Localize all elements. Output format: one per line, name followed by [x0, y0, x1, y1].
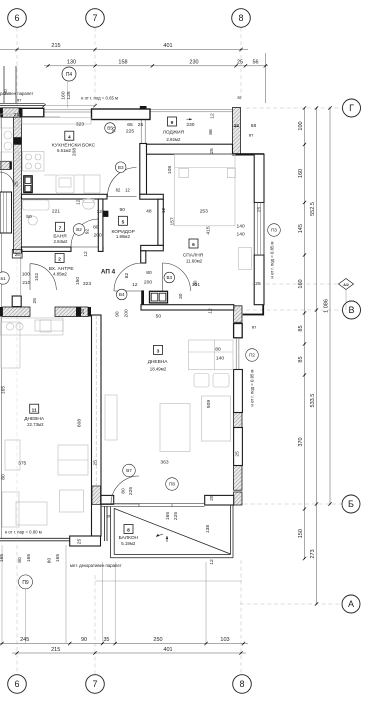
svg-text:92: 92 — [85, 229, 91, 235]
window P2 glazing lines — [236, 338, 239, 370]
bedroom east window frame boxes — [234, 324, 243, 338]
node A/2 diamond marker — [339, 279, 354, 290]
grid circle 7 top — [86, 9, 105, 28]
svg-text:157: 157 — [170, 217, 176, 225]
wall bedroom/living divider (white core) — [141, 305, 234, 310]
svg-text:22.73м2: 22.73м2 — [27, 422, 44, 427]
svg-text:вт: вт — [107, 514, 111, 519]
grid circle 7 bottom — [86, 675, 105, 694]
svg-text:130: 130 — [67, 60, 76, 66]
svg-text:25: 25 — [237, 60, 243, 66]
svg-text:90: 90 — [81, 637, 87, 643]
svg-text:8: 8 — [127, 528, 130, 534]
svg-text:80: 80 — [17, 557, 23, 563]
rotated interior dims — [0, 89, 262, 565]
divider band black caps — [0, 307, 3, 317]
svg-text:н от г. под = 0.85 м: н от г. под = 0.85 м — [250, 369, 255, 406]
svg-text:3: 3 — [157, 349, 160, 355]
svg-text:7: 7 — [59, 226, 62, 232]
svg-text:125: 125 — [66, 91, 72, 99]
svg-text:12: 12 — [209, 559, 215, 565]
svg-text:вт: вт — [252, 325, 256, 330]
svg-text:552.5: 552.5 — [310, 202, 316, 216]
tv cabinet living — [105, 395, 117, 440]
svg-text:вт: вт — [238, 95, 242, 100]
fridge kitchen — [84, 175, 100, 193]
svg-text:165: 165 — [165, 512, 171, 520]
wall bathroom east (white core) — [98, 199, 103, 251]
svg-text:85: 85 — [298, 356, 304, 362]
svg-text:12: 12 — [83, 251, 89, 257]
svg-text:5.19м2: 5.19м2 — [121, 541, 136, 546]
svg-text:8: 8 — [238, 13, 243, 23]
svg-text:323: 323 — [76, 122, 84, 128]
duct box living room — [150, 291, 168, 303]
svg-text:140: 140 — [237, 232, 245, 238]
svg-text:210: 210 — [22, 280, 30, 286]
svg-text:25: 25 — [255, 281, 261, 287]
dim ticks — [0, 48, 331, 655]
column hatch over west wall — [92, 486, 101, 505]
svg-text:30: 30 — [193, 280, 199, 286]
wall cap top band mid — [19, 108, 22, 118]
svg-text:230: 230 — [186, 122, 194, 128]
svg-text:158: 158 — [118, 60, 127, 66]
ottoman 1 — [194, 374, 209, 388]
top dim line row1 — [0, 49, 248, 51]
grid line V horizontal — [246, 309, 342, 311]
grid circle 8 bottom — [233, 675, 252, 694]
svg-text:273: 273 — [310, 549, 316, 558]
wall bedroom top (white core) — [147, 144, 233, 154]
svg-text:П9: П9 — [22, 580, 29, 586]
svg-text:12: 12 — [210, 113, 216, 119]
svg-text:2: 2 — [58, 257, 61, 263]
table living right — [202, 396, 231, 441]
svg-text:25: 25 — [234, 123, 240, 129]
svg-text:415: 415 — [206, 226, 212, 234]
svg-text:90: 90 — [119, 207, 125, 213]
svg-text:225: 225 — [128, 487, 134, 495]
svg-text:108: 108 — [167, 166, 173, 174]
svg-text:103: 103 — [220, 637, 229, 643]
svg-text:100: 100 — [22, 272, 30, 278]
svg-text:140: 140 — [216, 356, 224, 362]
svg-text:В2: В2 — [76, 227, 82, 232]
svg-text:215: 215 — [51, 43, 60, 49]
svg-text:П2: П2 — [249, 353, 255, 358]
chimney box on divider band — [12, 296, 21, 307]
svg-text:вт: вт — [249, 133, 253, 138]
svg-text:88: 88 — [208, 129, 214, 135]
svg-text:6: 6 — [14, 13, 19, 23]
right dim chain 2 — [316, 108, 318, 604]
svg-text:25: 25 — [256, 207, 262, 213]
grid circle A right — [342, 595, 360, 613]
svg-text:323: 323 — [83, 281, 91, 287]
dim labels right chains (rotated) — [298, 121, 330, 558]
bath tub — [23, 200, 50, 210]
svg-text:245: 245 — [20, 637, 29, 643]
bed bedroom — [175, 154, 236, 226]
svg-text:56: 56 — [252, 60, 258, 66]
svg-text:100: 100 — [298, 121, 304, 130]
neighbour kitchen top-left fixtures — [0, 114, 19, 128]
svg-text:н от г. пар = 0.80 м: н от г. пар = 0.80 м — [5, 530, 42, 535]
svg-text:165: 165 — [0, 554, 5, 562]
svg-text:12: 12 — [125, 188, 130, 193]
dnevna11 furniture — [1, 322, 20, 368]
svg-text:25: 25 — [14, 181, 20, 187]
duct box kitchen — [24, 176, 32, 193]
grid line B horizontal — [237, 503, 341, 505]
door V3 bedroom arc — [163, 263, 191, 291]
slope arrows balcony — [156, 534, 168, 542]
wall niche east (white core) — [158, 199, 163, 245]
terrace parapet AP3 — [0, 537, 70, 539]
svg-text:В3: В3 — [118, 165, 124, 170]
terrace/balcony divider — [104, 506, 106, 541]
left wall of living room (AP4 west) — [92, 315, 102, 536]
svg-text:н от г. под = 0.65 м: н от г. под = 0.65 м — [81, 96, 118, 101]
svg-text:В4: В4 — [119, 292, 125, 297]
node A/2 dashed line — [252, 283, 338, 285]
svg-text:25: 25 — [209, 495, 215, 501]
neighbour parapet lines top-left — [0, 66, 45, 106]
door V3 kitchen arc — [108, 168, 137, 197]
svg-text:БАЛКОН: БАЛКОН — [119, 535, 139, 541]
bottom dim line row1 — [0, 643, 248, 645]
extension lines bottom — [2, 290, 346, 644]
svg-text:А/2: А/2 — [343, 283, 349, 287]
svg-text:А: А — [348, 599, 354, 609]
svg-text:мет. декоративен парапет: мет. декоративен парапет — [70, 563, 122, 568]
room 8 balcony — [119, 525, 139, 547]
wall center dashed line in west wall — [95, 315, 97, 485]
svg-text:225: 225 — [173, 512, 179, 520]
svg-text:48: 48 — [146, 208, 152, 214]
room 6 bedroom — [183, 239, 204, 263]
svg-text:7: 7 — [92, 13, 97, 23]
svg-text:2.92м2: 2.92м2 — [166, 137, 181, 142]
svg-text:н от г. под = 0.85 м: н от г. под = 0.85 м — [270, 241, 275, 278]
neighbour counter below band — [0, 318, 63, 335]
door V1 entrance arc — [30, 264, 56, 290]
svg-text:7: 7 — [92, 679, 97, 689]
wall step at column 8 — [233, 153, 265, 155]
room 11 dnevna AP3 — [24, 404, 45, 427]
room 7 bath — [53, 222, 68, 244]
column living-room SW corner — [92, 485, 102, 504]
svg-text:25: 25 — [92, 460, 98, 466]
grid line 7 — [94, 28, 96, 109]
svg-text:509: 509 — [206, 400, 212, 408]
gray stub neighbour — [0, 192, 12, 233]
svg-text:253: 253 — [200, 209, 208, 215]
svg-text:2.84м2: 2.84м2 — [53, 239, 68, 244]
svg-text:25: 25 — [138, 122, 144, 128]
svg-text:150: 150 — [298, 529, 304, 538]
antre west thin line — [20, 253, 22, 296]
wall cap top band left — [0, 108, 3, 118]
grid circle 6 bottom — [8, 675, 27, 694]
svg-text:П3: П3 — [271, 228, 277, 233]
dim extension line x265 top — [264, 53, 266, 103]
room 5 corridor — [112, 216, 135, 239]
rug/table living left — [160, 404, 190, 452]
svg-text:85: 85 — [298, 325, 304, 331]
bath wc — [83, 199, 95, 209]
svg-text:6: 6 — [192, 242, 195, 248]
svg-text:215: 215 — [51, 647, 60, 653]
svg-text:225: 225 — [126, 128, 134, 134]
svg-text:608: 608 — [77, 419, 83, 427]
kitchen counter line — [44, 174, 56, 176]
loggia door glazing lines — [141, 118, 145, 144]
grid circle V right — [343, 301, 361, 319]
room 9 loggia — [163, 117, 185, 142]
svg-text:5: 5 — [122, 220, 125, 226]
svg-text:70: 70 — [112, 127, 118, 133]
grid circle 8 top — [232, 9, 251, 28]
svg-text:ДНЕВНА: ДНЕВНА — [148, 359, 169, 365]
wire: thin sill lines right of top wall — [45, 109, 233, 117]
ottoman 2 — [213, 374, 229, 388]
svg-text:АП 4: АП 4 — [101, 269, 116, 276]
column top right (grid 8) — [233, 108, 241, 156]
svg-text:6.61м2: 6.61м2 — [57, 148, 72, 153]
svg-text:1 086: 1 086 — [324, 299, 330, 313]
grid circle G right — [343, 99, 361, 117]
svg-text:30: 30 — [178, 293, 184, 299]
svg-text:4.85м2: 4.85м2 — [53, 272, 68, 277]
door V2 bathroom arc — [71, 219, 99, 247]
svg-text:80: 80 — [47, 558, 53, 564]
door V4 living room arc — [114, 263, 142, 291]
room 2 entrance hall — [49, 254, 74, 277]
wall block in W1 — [14, 137, 22, 145]
svg-text:вт: вт — [17, 98, 21, 103]
svg-text:208: 208 — [72, 148, 78, 156]
balcony bottom railing — [110, 557, 233, 559]
wall kitchen/loggia vertical upper stub — [140, 106, 147, 118]
wall bedroom east upper (white core) — [254, 154, 264, 202]
balcony left edge — [109, 507, 111, 558]
slab edge line below balcony — [95, 580, 242, 582]
svg-text:1.99м2: 1.99м2 — [116, 234, 131, 239]
neighbour wall left edge hatched — [0, 162, 10, 170]
svg-text:363: 363 — [160, 460, 168, 466]
svg-text:20: 20 — [80, 309, 86, 315]
wall: top band hatched pier — [0, 108, 242, 506]
svg-text:160: 160 — [60, 91, 66, 99]
svg-text:138: 138 — [205, 525, 211, 533]
svg-text:165: 165 — [55, 554, 61, 562]
svg-text:140: 140 — [237, 223, 245, 229]
electrical board block corridor — [102, 211, 108, 217]
svg-text:50: 50 — [156, 314, 162, 320]
wall return piece SW terrace — [70, 536, 101, 546]
wall bathroom bottom (gap for door at x71-99) — [22, 247, 72, 251]
svg-text:82: 82 — [124, 273, 130, 279]
svg-text:200: 200 — [94, 233, 102, 239]
svg-text:25: 25 — [209, 148, 215, 154]
svg-text:В3: В3 — [166, 275, 172, 280]
balcony top wall piece — [205, 495, 234, 505]
svg-text:ЛОДЖИЯ: ЛОДЖИЯ — [163, 130, 185, 136]
right dim chain 1 — [304, 108, 306, 559]
svg-text:9: 9 — [171, 120, 174, 126]
svg-text:80: 80 — [1, 474, 7, 480]
svg-text:11: 11 — [32, 407, 37, 413]
svg-text:165: 165 — [26, 554, 32, 562]
svg-text:375: 375 — [18, 461, 26, 467]
svg-text:в1: в1 — [1, 276, 6, 281]
svg-text:370: 370 — [298, 437, 304, 446]
desk bedroom — [239, 248, 252, 270]
wall bathroom top — [22, 194, 108, 199]
svg-text:11.60м2: 11.60м2 — [186, 258, 203, 263]
grid circle B right — [342, 495, 360, 513]
svg-text:12: 12 — [132, 282, 138, 288]
svg-text:80: 80 — [215, 347, 221, 353]
svg-text:160: 160 — [298, 169, 304, 178]
wall corridor top / niche top (white core) — [140, 194, 164, 199]
svg-text:12: 12 — [161, 208, 167, 214]
svg-text:35: 35 — [103, 637, 109, 643]
wall niche bottom (white core) — [141, 245, 164, 250]
balcony slope diagonal — [114, 509, 230, 555]
window P3 bedroom east — [254, 203, 264, 256]
wall bedroom east lower (white core) — [254, 255, 264, 305]
loggia railing lines — [150, 108, 233, 110]
divider band AP3/AP4 hatched left part — [3, 307, 31, 317]
svg-text:25: 25 — [14, 112, 20, 118]
svg-text:50: 50 — [26, 214, 32, 220]
wall kitchen/loggia east (white core) — [140, 144, 147, 195]
column east wall lower — [234, 466, 242, 491]
svg-text:401: 401 — [163, 43, 172, 49]
bath basin — [28, 216, 37, 225]
P4 window mark circle — [42, 67, 96, 108]
svg-text:Б: Б — [348, 499, 354, 509]
svg-text:533.5: 533.5 — [310, 394, 316, 408]
protruding pier at SW — [101, 495, 114, 504]
svg-text:В: В — [348, 305, 354, 315]
svg-text:Г: Г — [349, 103, 354, 113]
svg-text:82: 82 — [116, 188, 121, 193]
svg-text:6: 6 — [14, 679, 19, 689]
svg-text:90: 90 — [115, 311, 121, 317]
room 3 living — [148, 345, 169, 371]
window box in top band — [22, 108, 44, 117]
svg-text:80: 80 — [121, 488, 127, 494]
column east wall mid — [234, 413, 242, 428]
svg-text:В7: В7 — [126, 468, 132, 473]
svg-text:8: 8 — [239, 679, 244, 689]
svg-text:65: 65 — [127, 122, 133, 128]
svg-text:П8: П8 — [169, 482, 175, 487]
svg-text:145: 145 — [298, 224, 304, 233]
top dim line row2 — [44, 65, 268, 67]
svg-text:200: 200 — [124, 309, 130, 317]
svg-text:25: 25 — [32, 298, 38, 304]
stove kitchen — [23, 152, 45, 172]
svg-text:18.49м2: 18.49м2 — [150, 366, 167, 371]
svg-text:160: 160 — [298, 279, 304, 288]
svg-text:П4: П4 — [66, 72, 73, 78]
wall stub below corridor — [141, 290, 144, 305]
svg-text:401: 401 — [163, 647, 172, 653]
wall corridor east lower stub (white core) — [141, 251, 146, 263]
right dim chain 3 — [329, 108, 331, 504]
dnevna11 bottom wall — [0, 506, 107, 541]
svg-text:4: 4 — [68, 134, 71, 140]
svg-text:221: 221 — [52, 209, 60, 215]
svg-text:25: 25 — [76, 539, 82, 545]
svg-text:200: 200 — [144, 280, 152, 286]
svg-text:25: 25 — [234, 451, 240, 457]
svg-text:80: 80 — [93, 225, 99, 231]
svg-text:250: 250 — [153, 637, 162, 643]
grid line 8 — [240, 28, 242, 101]
wall east outer step — [262, 305, 264, 316]
south glazing of living room (to balcony) — [101, 504, 205, 507]
grid line A horizontal — [240, 603, 341, 605]
room 4 kitchen — [52, 131, 96, 153]
grid line G horizontal — [246, 107, 342, 109]
door V7 balcony arc — [111, 476, 139, 504]
svg-text:80: 80 — [146, 270, 152, 276]
svg-text:150: 150 — [75, 277, 81, 285]
door neighbour top-left arc — [0, 172, 14, 187]
sofa living — [189, 340, 234, 370]
kitchen window box — [92, 109, 151, 120]
svg-text:12: 12 — [76, 199, 82, 205]
svg-text:ративен парапет: ративен парапет — [0, 91, 33, 96]
dim labels top — [20, 43, 258, 653]
svg-text:165: 165 — [1, 386, 7, 394]
svg-text:12: 12 — [208, 308, 214, 314]
neighbour wall left edge (cap) — [10, 162, 12, 170]
column below bedroom (east wall) — [234, 306, 242, 323]
wall W1 vertical hatched — [14, 117, 22, 253]
svg-text:102: 102 — [34, 273, 40, 281]
sink kitchen — [56, 175, 74, 193]
left edge boundary lines — [0, 118, 2, 193]
svg-text:12: 12 — [97, 209, 103, 215]
svg-text:58: 58 — [251, 123, 257, 129]
svg-text:230: 230 — [189, 60, 198, 66]
divider band AP3/AP4 hatched right part — [55, 307, 88, 317]
bottom dim line row2 — [12, 652, 246, 654]
balcony right edge — [230, 505, 232, 555]
